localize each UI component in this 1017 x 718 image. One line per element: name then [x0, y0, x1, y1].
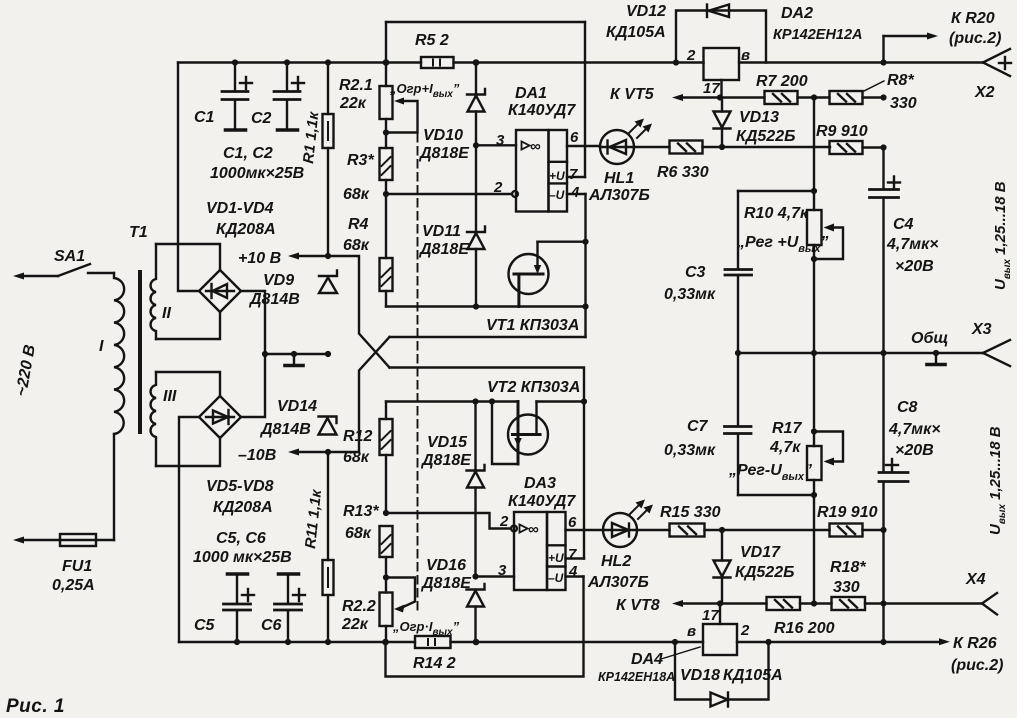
node K R26 branch	[880, 639, 886, 645]
svg-text:17: 17	[703, 80, 720, 97]
node R14 right	[473, 639, 480, 646]
node -10V	[325, 449, 331, 455]
svg-text:VD16: VD16	[426, 557, 466, 574]
label C1 C2 values	[210, 145, 304, 182]
svg-text:–U: –U	[548, 571, 564, 585]
svg-text:0,33мк: 0,33мк	[664, 286, 716, 303]
transistor VT2	[492, 402, 584, 465]
node R1 top	[325, 59, 331, 65]
op-amp DA1	[516, 130, 567, 212]
svg-text:17: 17	[702, 607, 719, 624]
wire -10V stub	[288, 449, 328, 456]
node R17 bottom	[811, 492, 817, 498]
svg-text:R16 200: R16 200	[774, 620, 835, 637]
svg-text:C5: C5	[194, 617, 216, 634]
node R5 right	[473, 59, 480, 66]
node VD13 bottom	[719, 144, 725, 150]
wire R6 to R9	[703, 146, 831, 148]
wire pin7 supply lower	[566, 557, 585, 559]
diode VD13	[714, 98, 731, 148]
label DA4 with leader	[598, 647, 700, 684]
node R9 right	[880, 144, 886, 150]
connector X3	[983, 340, 1010, 366]
wire crossover plus10	[328, 256, 390, 368]
svg-text:0,25A: 0,25A	[52, 577, 95, 594]
wire raw minus rail	[179, 641, 942, 643]
node C3 common	[735, 350, 741, 356]
potentiometer R17	[807, 353, 843, 604]
svg-text:R6 330: R6 330	[657, 164, 709, 181]
label C4	[886, 216, 939, 275]
label VD15	[420, 434, 472, 469]
svg-text:DA2: DA2	[781, 5, 813, 22]
label K R26	[951, 635, 1003, 674]
node pin3 lower	[472, 573, 478, 579]
svg-text:22к: 22к	[341, 616, 369, 633]
svg-text:АЛ307Б: АЛ307Б	[587, 574, 649, 591]
svg-text:R19 910: R19 910	[817, 504, 878, 521]
label DA3	[508, 475, 576, 510]
diode VD17	[714, 530, 731, 604]
svg-text:VT1 КП303А: VT1 КП303А	[486, 317, 579, 334]
wire K VT8	[672, 600, 767, 607]
svg-text:Д818Е: Д818Е	[420, 575, 472, 592]
node R14 left	[382, 639, 389, 646]
node C1 top	[232, 59, 238, 65]
node gate loop top	[489, 398, 495, 404]
node DA4 adj	[717, 600, 723, 606]
svg-text:VD15: VD15	[427, 434, 468, 451]
resistor R7	[765, 91, 830, 104]
transformer T1 core	[138, 272, 142, 432]
connector X4	[982, 593, 997, 615]
svg-text:7: 7	[568, 546, 577, 563]
node R10 top	[811, 188, 817, 194]
svg-text:3: 3	[496, 132, 505, 149]
svg-text:DA1: DA1	[515, 85, 547, 102]
svg-text:Д818Е: Д818Е	[420, 452, 472, 469]
potentiometer R10	[807, 191, 843, 353]
svg-text:Д818Е: Д818Е	[418, 145, 470, 162]
svg-text:К R20: К R20	[951, 10, 995, 27]
potentiometer R2.2	[380, 578, 416, 643]
svg-text:R3*: R3*	[347, 152, 374, 169]
zener VD15	[467, 402, 485, 577]
node VD15 top	[472, 398, 478, 404]
wire pin4 supply lower	[566, 575, 584, 577]
svg-text:C2: C2	[251, 110, 272, 127]
label C7	[664, 418, 716, 459]
svg-text:C3: C3	[685, 264, 706, 281]
wire pin6 out	[567, 145, 600, 147]
svg-text:К R26: К R26	[953, 635, 997, 652]
capacitor C2	[274, 63, 304, 131]
svg-text:X3: X3	[971, 321, 992, 338]
wire pin4 supply	[567, 194, 586, 337]
wire right vertical lower	[882, 530, 884, 642]
node center right	[325, 351, 331, 357]
svg-text:+U: +U	[548, 551, 564, 565]
svg-text:III: III	[163, 388, 177, 405]
svg-text:R7 200: R7 200	[756, 73, 808, 90]
bridge rectifier VD1-VD4 diamond	[199, 270, 241, 312]
svg-text:VD10: VD10	[423, 127, 463, 144]
resistor R14	[415, 636, 451, 648]
wire K R26 arrow	[939, 638, 950, 645]
node +10V	[325, 253, 331, 259]
svg-text:SA1: SA1	[54, 248, 85, 265]
svg-text:1000 мк×25В: 1000 мк×25В	[193, 549, 292, 566]
svg-text:R2.2: R2.2	[342, 598, 376, 615]
wire R10 top to C3	[738, 190, 814, 192]
zener VD10	[467, 63, 485, 146]
svg-text:КД522Б: КД522Б	[736, 128, 795, 145]
op-amp DA3	[514, 512, 566, 590]
svg-text:+10 В: +10 В	[238, 250, 281, 267]
svg-text:–U: –U	[549, 188, 565, 202]
label R12 68k	[343, 428, 372, 466]
node C8 common	[880, 350, 886, 356]
resistor R11	[323, 452, 334, 642]
svg-text:2: 2	[493, 179, 503, 196]
wire mains input top	[13, 273, 58, 280]
svg-text:X4: X4	[965, 571, 986, 588]
wire winding II bottom to bridge	[156, 312, 220, 339]
svg-text:R17: R17	[772, 420, 802, 437]
svg-text:VD18: VD18	[680, 667, 720, 684]
HL1 emission arrows	[629, 119, 652, 139]
wire plus10 feed	[390, 368, 585, 559]
resistor R16	[767, 597, 832, 610]
wire crossover minus10	[328, 337, 390, 452]
node minus10 wire	[582, 303, 588, 309]
fuse FU1	[60, 534, 114, 546]
svg-text:+U: +U	[549, 169, 565, 183]
label R4 68k	[343, 216, 370, 254]
svg-text:6: 6	[570, 129, 579, 146]
wire +U supply top loop	[386, 22, 585, 177]
svg-text:6: 6	[568, 514, 577, 531]
svg-text:C7: C7	[687, 418, 709, 435]
label VD10	[418, 127, 470, 162]
wire pin3	[476, 144, 516, 146]
svg-text:DA3: DA3	[524, 475, 556, 492]
svg-text:КД522Б: КД522Б	[735, 564, 794, 581]
svg-text:68к: 68к	[343, 237, 370, 254]
svg-text:VD13: VD13	[739, 109, 779, 126]
node DA2 adj	[717, 94, 723, 100]
svg-text:Рис. 1: Рис. 1	[6, 696, 65, 717]
svg-text:T1: T1	[129, 224, 148, 241]
regulator DA2	[704, 48, 740, 98]
svg-text:в: в	[687, 623, 696, 640]
node R8 right	[880, 94, 886, 100]
wire R15 to R19	[705, 529, 830, 531]
svg-text:К VT8: К VT8	[616, 597, 660, 614]
label DA2	[773, 5, 863, 43]
wire pin2	[386, 193, 512, 195]
wire upper bridge output to center	[241, 291, 265, 354]
svg-text:Общ: Общ	[911, 330, 948, 347]
transformer T1 primary winding I	[114, 273, 124, 434]
node X2 branch	[880, 59, 886, 65]
wire -U supply bottom loop	[386, 577, 584, 677]
label HL1	[588, 170, 650, 204]
svg-text:2: 2	[686, 47, 696, 64]
diode inside lower bridge	[206, 410, 234, 424]
svg-text:C8: C8	[897, 399, 918, 416]
node ground right	[933, 350, 939, 356]
label VD12	[606, 3, 666, 41]
label C8	[888, 399, 941, 459]
inverting input bubble DA1	[512, 191, 518, 197]
node R16 R18 junction	[811, 600, 817, 606]
node C2 top	[284, 59, 290, 65]
node R7 R8 junction	[811, 94, 817, 100]
ground right	[927, 353, 945, 365]
svg-text:FU1: FU1	[62, 558, 92, 575]
label DA1	[508, 85, 576, 119]
svg-text:×20В: ×20В	[895, 442, 934, 459]
svg-text:К VT5: К VT5	[610, 86, 655, 103]
zener VD14	[319, 417, 337, 435]
diode inside upper bridge	[206, 284, 234, 298]
inverting input bubble DA3	[511, 526, 517, 532]
node VD17 top	[719, 527, 725, 533]
svg-text:(рис.2): (рис.2)	[951, 657, 1003, 674]
connector X2	[983, 49, 1011, 76]
node R2.2 wiper	[383, 574, 389, 580]
svg-text:C1, C2: C1, C2	[223, 145, 273, 162]
node R2.1 wiper	[383, 129, 389, 135]
node R18 right	[880, 600, 886, 606]
node pin3	[473, 142, 479, 148]
svg-text:(рис.2): (рис.2)	[949, 30, 1001, 47]
label R13 68k	[343, 503, 379, 542]
node center left	[262, 351, 268, 357]
resistor R19	[830, 524, 884, 537]
wire R10 feed vertical	[813, 98, 815, 192]
label R2.1 22k	[339, 77, 373, 112]
svg-text:VD5-VD8: VD5-VD8	[206, 478, 274, 495]
svg-text:Д814В: Д814В	[259, 421, 311, 438]
label VD13	[736, 109, 795, 145]
wire center common	[265, 353, 328, 355]
node R19 right	[880, 527, 886, 533]
svg-text:×20В: ×20В	[895, 258, 934, 275]
resistor R1	[323, 63, 334, 257]
ground center	[285, 354, 303, 366]
wire lower bridge minus output	[179, 417, 199, 642]
svg-text:R8*: R8*	[887, 72, 914, 89]
label VD16	[420, 557, 472, 592]
svg-text:4,7мк×: 4,7мк×	[886, 236, 939, 253]
svg-text:VD14: VD14	[277, 398, 317, 415]
diode VD18 bypass	[675, 642, 769, 707]
svg-text:VT2 КП303А: VT2 КП303А	[487, 379, 580, 396]
resistor R18	[832, 597, 884, 610]
resistor R8	[830, 91, 884, 104]
svg-text:R5 2: R5 2	[415, 32, 449, 49]
svg-text:Д818Е: Д818Е	[418, 241, 470, 258]
regulator DA4	[703, 604, 737, 656]
svg-text:3: 3	[498, 562, 507, 579]
label R18 330	[830, 559, 866, 596]
label K R20	[949, 10, 1001, 47]
transformer T1 secondary winding III	[151, 372, 156, 466]
wire K R20 stub	[884, 33, 939, 63]
node VD12 anode	[673, 59, 679, 65]
label VD11	[418, 223, 470, 258]
wire X4	[884, 602, 983, 604]
zener VD11	[467, 145, 485, 306]
resistor R6	[634, 141, 703, 154]
svg-text:2: 2	[499, 513, 509, 530]
svg-text:0,33мк: 0,33мк	[664, 442, 716, 459]
wire pin7 supply	[567, 176, 585, 178]
svg-text:II: II	[162, 305, 171, 322]
wire pin3 lower	[476, 575, 515, 577]
svg-text:R18*: R18*	[830, 559, 866, 576]
svg-text:2: 2	[740, 622, 750, 639]
label VD18 KD105A	[680, 667, 783, 684]
svg-text:КР142ЕН12А: КР142ЕН12А	[773, 27, 863, 43]
node pin2 tap	[383, 191, 389, 197]
svg-text:R12: R12	[343, 428, 372, 445]
svg-text:C4: C4	[893, 216, 914, 233]
node VD11 bottom	[473, 303, 479, 309]
svg-text:К140УД7: К140УД7	[508, 493, 576, 510]
wire winding III bottom to bridge	[156, 438, 220, 466]
svg-text:КР142ЕН18А: КР142ЕН18А	[598, 670, 675, 684]
capacitor C8	[879, 353, 908, 531]
label R3 68k	[343, 152, 374, 203]
svg-text:R10 4,7к: R10 4,7к	[744, 205, 809, 222]
wire common rail	[738, 352, 983, 354]
resistor R15	[637, 524, 705, 537]
svg-text:330: 330	[833, 579, 860, 596]
svg-text:Д814В: Д814В	[248, 291, 300, 308]
svg-text:К140УД7: К140УД7	[508, 102, 576, 119]
node R5 left	[383, 59, 390, 66]
capacitor C3	[725, 191, 752, 353]
capacitor C4	[870, 148, 901, 354]
svg-text:R2.1: R2.1	[339, 77, 373, 94]
svg-text:68к: 68к	[343, 186, 370, 203]
wire left vertical raw plus	[178, 63, 199, 292]
label C5 C6 values	[193, 530, 292, 566]
svg-text:∞: ∞	[530, 138, 541, 155]
label HL2	[587, 553, 649, 591]
wire fuse to primary	[113, 434, 115, 540]
node ground tap	[291, 351, 297, 357]
wire mains input bottom	[13, 537, 60, 544]
diode VD12 bypass	[676, 5, 766, 63]
node C5 bottom	[234, 639, 240, 645]
switch SA1	[58, 264, 114, 276]
svg-text:C5, C6: C5, C6	[216, 530, 266, 547]
svg-text:4: 4	[570, 184, 580, 201]
resistor R13	[380, 526, 393, 593]
svg-text:R9 910: R9 910	[816, 123, 868, 140]
wire lower source rail	[386, 400, 518, 402]
svg-text:КД105А: КД105А	[723, 667, 783, 684]
node R11 bottom	[325, 639, 331, 645]
svg-text:22к: 22к	[339, 95, 367, 112]
svg-text:∞: ∞	[528, 521, 539, 538]
svg-text:7: 7	[569, 166, 578, 183]
svg-text:R4: R4	[348, 216, 369, 233]
wire pin2 lower	[386, 513, 511, 529]
label VD17	[735, 544, 794, 581]
svg-text:–10В: –10В	[238, 447, 276, 464]
node VT1 drain	[582, 239, 588, 245]
svg-text:I: I	[99, 338, 104, 355]
wire K VT5	[672, 94, 765, 101]
capacitor C6	[275, 574, 306, 642]
label R2.2 22k	[341, 598, 376, 633]
wire raw plus rail	[178, 61, 983, 63]
svg-text:КД105А: КД105А	[606, 24, 666, 41]
svg-text:X2: X2	[974, 84, 995, 101]
node DA4 out	[765, 639, 771, 645]
svg-text:АЛ307Б: АЛ307Б	[588, 187, 650, 204]
capacitor C7	[725, 353, 815, 495]
resistor R9	[830, 141, 884, 154]
svg-text:HL2: HL2	[601, 553, 631, 570]
resistor R12	[380, 402, 393, 514]
svg-text:1000мк×25В: 1000мк×25В	[210, 165, 304, 182]
node C6 bottom	[285, 639, 291, 645]
label R8 330 with leader	[864, 72, 917, 112]
wire minus10 feed	[390, 336, 586, 338]
wire pin6 out lower	[566, 529, 604, 531]
label C3	[664, 264, 716, 303]
node R17 common	[811, 350, 817, 356]
node VT2 drain	[581, 398, 587, 404]
wire lower bridge plus to center	[241, 354, 265, 417]
resistor R4	[380, 258, 393, 307]
node pin2 tap lower	[383, 510, 389, 516]
resistor R5	[421, 57, 454, 68]
zener VD9	[319, 271, 337, 294]
svg-text:R13*: R13*	[343, 503, 379, 520]
svg-text:C6: C6	[261, 617, 282, 634]
svg-text:R15 330: R15 330	[660, 504, 721, 521]
svg-text:DA4: DA4	[631, 651, 663, 668]
zener VD16	[467, 584, 485, 642]
svg-text:КД208А: КД208А	[213, 499, 273, 516]
svg-text:4,7мк×: 4,7мк×	[888, 421, 941, 438]
bridge rectifier VD5-VD8 diamond	[199, 396, 241, 438]
svg-text:4,7к: 4,7к	[769, 439, 801, 456]
svg-text:R14 2: R14 2	[413, 655, 456, 672]
svg-text:HL1: HL1	[604, 170, 634, 187]
svg-text:VD11: VD11	[422, 223, 461, 240]
wire winding II top to bridge	[156, 244, 220, 270]
svg-text:68к: 68к	[345, 525, 372, 542]
svg-text:330: 330	[890, 95, 917, 112]
node R10 wiper tie	[811, 256, 817, 262]
label R17	[769, 420, 802, 456]
resistor R3	[380, 148, 393, 258]
svg-text:VD12: VD12	[626, 3, 666, 20]
svg-text:VD9: VD9	[263, 272, 294, 289]
LED HL1	[600, 130, 634, 164]
wire +10V stub	[288, 253, 328, 260]
LED HL2	[603, 513, 637, 547]
wire winding III top to bridge	[156, 372, 220, 396]
